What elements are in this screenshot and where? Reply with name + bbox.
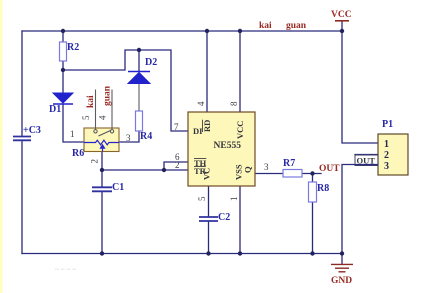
node R7/R8 OUT (310, 171, 314, 175)
wire left rail (interrupted by C3) (21, 31, 23, 254)
wire VCC stub (341, 21, 343, 31)
pot wiper arrow (102, 147, 104, 152)
svg-text:8: 8 (229, 101, 239, 106)
wire R2 bottom to D2 branch and 555 pin7 (63, 50, 188, 131)
wire 555 pin3 to R7 (255, 173, 283, 175)
svg-text:1: 1 (229, 197, 239, 202)
svg-text:kai: kai (259, 21, 272, 31)
node pin1 bottom (238, 251, 242, 255)
node D2 top (137, 48, 141, 52)
node R2 top (61, 29, 65, 33)
svg-text:OUT: OUT (319, 164, 340, 174)
R6 pin 5 lead (95, 90, 97, 130)
svg-text:D1: D1 (49, 104, 61, 115)
capacitor C3 (13, 125, 41, 140)
svg-text:5: 5 (81, 115, 91, 120)
pot resistive zigzag (84, 140, 119, 145)
svg-text:1: 1 (70, 129, 75, 139)
svg-text:4: 4 (98, 115, 108, 120)
svg-text:VC: VC (202, 168, 212, 180)
wire top rail (22, 30, 342, 32)
wire 555 pin4 column (206, 31, 208, 112)
wire D1 top stub (62, 70, 64, 93)
node pin6/pin2 (162, 168, 166, 172)
svg-text:R2: R2 (67, 42, 79, 53)
wire 555 pin8 column (239, 31, 241, 112)
svg-text:+C3: +C3 (23, 125, 41, 136)
svg-text:7: 7 (174, 122, 179, 132)
svg-text:R7: R7 (283, 158, 295, 169)
wire R7 to OUT node (302, 173, 321, 175)
capacitor C2 (199, 212, 230, 223)
switch lever (99, 130, 112, 136)
svg-text:2: 2 (384, 150, 389, 161)
svg-text:RD: RD (202, 120, 212, 132)
pin lead D2 to R4 (138, 83, 140, 111)
node R2/D1/D2 (61, 68, 65, 72)
node R8 bottom (310, 251, 314, 255)
ground GND symbol (331, 264, 353, 286)
wire P1 pin3 to GND column (342, 165, 378, 254)
R6 pin 4 lead (111, 90, 113, 130)
svg-text:1: 1 (384, 139, 389, 150)
svg-text:4: 4 (196, 101, 206, 106)
svg-text:D2: D2 (145, 57, 157, 68)
svg-text:GND: GND (331, 276, 352, 286)
capacitor C1 (92, 182, 124, 193)
svg-text:2: 2 (175, 160, 180, 170)
svg-text:~~~~: ~~~~ (55, 266, 78, 274)
wire 555 pin5 to C2 and down (208, 186, 210, 254)
svg-text:3: 3 (264, 162, 269, 172)
svg-text:2: 2 (90, 159, 100, 164)
svg-text:guan: guan (103, 85, 113, 106)
potentiometer with switch R6 (70, 85, 131, 163)
op-amp/timer U? : IC NE555 (174, 101, 269, 201)
svg-text:3: 3 (384, 161, 389, 172)
svg-text:OUT: OUT (357, 156, 376, 166)
svg-text:3: 3 (126, 133, 131, 143)
wire D2 top stub (138, 50, 140, 71)
svg-text:kai: kai (86, 95, 96, 108)
svg-text:VCC: VCC (331, 10, 352, 20)
svg-text:R4: R4 (140, 131, 152, 142)
wire 555 pin6/pin2 leads (164, 162, 188, 170)
svg-text:5: 5 (197, 196, 207, 201)
wire P1 pin2 stub (355, 154, 378, 156)
diode D1 (49, 93, 73, 115)
svg-text:P1: P1 (382, 119, 393, 130)
node VCC corner (340, 29, 344, 33)
wire bottom rail (22, 253, 342, 255)
node C2 bottom (206, 251, 210, 255)
diode D2 (128, 57, 157, 84)
node GND corner (340, 251, 344, 255)
node pin4 top (205, 29, 209, 33)
resistor R2 (60, 42, 67, 61)
node pin2/C1 (100, 168, 104, 172)
resistor R7 (283, 170, 302, 178)
svg-text:VCC: VCC (235, 121, 245, 139)
svg-text:C2: C2 (218, 212, 230, 223)
svg-text:R6: R6 (72, 148, 84, 159)
svg-text:guan: guan (286, 21, 307, 31)
power VCC symbol (331, 10, 352, 21)
wire 555 pin1 down (239, 186, 241, 254)
svg-text:R8: R8 (317, 183, 329, 194)
svg-text:Q: Q (243, 166, 253, 173)
wire VCC column down to P1 pin1 (342, 31, 378, 143)
wire R6 pin2 down to C1 and to 555 pins 2,6 (102, 152, 164, 254)
resistor R4 (136, 111, 143, 131)
svg-text:NE555: NE555 (214, 141, 242, 151)
switch contact pin4 (110, 130, 113, 133)
paper left edge strip (0, 0, 3, 293)
switch contact pin5 (94, 130, 97, 133)
resistor R8 (309, 182, 317, 202)
connector P1 (378, 119, 408, 175)
wire D1 to R6 pin1 (63, 104, 84, 142)
wire R2 top stub (62, 31, 64, 42)
wire R8 column (312, 174, 314, 254)
wire GND stub (341, 254, 343, 265)
port OUT (blue box) (355, 155, 378, 166)
node C1 bottom (100, 251, 104, 255)
node pin8 top (238, 29, 242, 33)
wire R6 pin3 to R4 (119, 131, 139, 142)
svg-text:C1: C1 (112, 182, 124, 193)
